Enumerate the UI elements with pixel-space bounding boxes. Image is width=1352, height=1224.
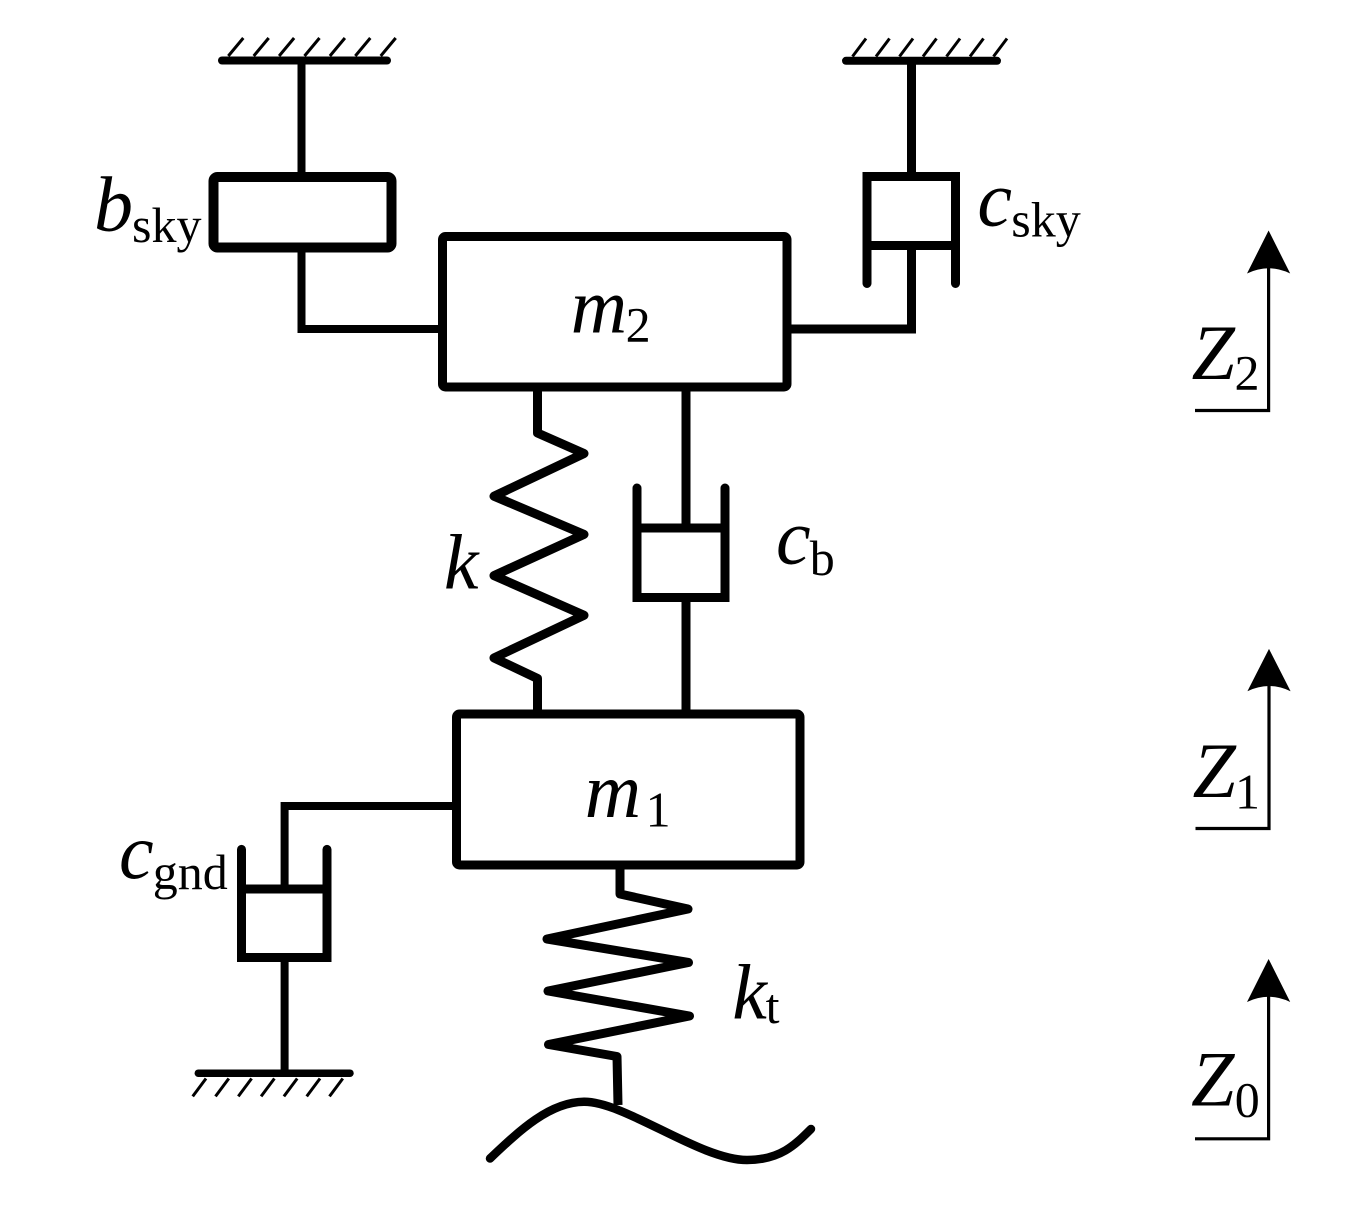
- damper c_gnd rod to ground: [281, 958, 289, 1074]
- spring k between m2 and m1: [494, 391, 584, 710]
- svg-text:2: 2: [626, 296, 651, 352]
- wire from b_sky to mass m2: [302, 247, 444, 329]
- svg-text:c: c: [977, 156, 1012, 243]
- damper c_b rod to m1: [682, 598, 691, 711]
- damper c_b cylinder (cup): [637, 488, 725, 598]
- svg-text:sky: sky: [1011, 192, 1080, 248]
- label b_sky: [94, 161, 201, 253]
- label Z1: [1193, 727, 1261, 819]
- svg-text:1: 1: [1235, 764, 1260, 820]
- svg-text:sky: sky: [132, 197, 201, 253]
- svg-text:k: k: [444, 518, 480, 605]
- axis arrow Z0: [1195, 959, 1290, 1139]
- damper b_sky rod from ceiling: [298, 62, 306, 176]
- road profile wave: [490, 1102, 811, 1160]
- mass m2 box: [443, 237, 788, 388]
- svg-text:c: c: [776, 494, 811, 581]
- svg-text:Z: Z: [1191, 1036, 1236, 1123]
- damper c_sky rod from ceiling: [907, 62, 916, 180]
- svg-text:c: c: [119, 808, 154, 895]
- wire from m1 to damper c_gnd: [285, 806, 452, 889]
- label c_sky: [977, 156, 1080, 248]
- svg-text:m: m: [585, 747, 641, 834]
- label kt: [732, 949, 779, 1036]
- label k: [444, 518, 480, 605]
- axis arrow Z2: [1195, 231, 1290, 411]
- axis arrow Z1: [1196, 649, 1291, 829]
- damper b_sky body box: [214, 177, 392, 248]
- svg-text:m: m: [571, 262, 627, 349]
- label c_gnd: [119, 808, 228, 900]
- svg-text:t: t: [766, 978, 780, 1034]
- label Z0: [1191, 1036, 1260, 1128]
- damper c_sky piston: [863, 241, 960, 250]
- damper c_b rod from m2: [682, 391, 691, 528]
- svg-text:Z: Z: [1192, 309, 1237, 396]
- svg-text:0: 0: [1235, 1071, 1260, 1127]
- damper c_sky cylinder (inverted cup): [867, 177, 956, 284]
- ground anchor (hatched): [193, 1073, 350, 1096]
- label c_b: [776, 494, 835, 586]
- damper c_gnd cylinder (cup): [242, 849, 328, 957]
- svg-text:k: k: [732, 949, 768, 1036]
- svg-text:1: 1: [646, 782, 671, 838]
- svg-text:gnd: gnd: [153, 844, 228, 900]
- damper c_gnd piston: [238, 885, 332, 894]
- mass m1 box: [457, 714, 801, 865]
- label m1: [585, 747, 671, 838]
- ceiling anchor right (hatched wall for c_sky): [846, 39, 1007, 61]
- svg-text:Z: Z: [1193, 727, 1238, 814]
- svg-text:b: b: [810, 530, 835, 586]
- label Z2: [1192, 309, 1260, 401]
- wire from c_sky piston to mass m2: [789, 246, 912, 330]
- svg-text:2: 2: [1235, 345, 1260, 401]
- svg-text:b: b: [94, 161, 133, 248]
- spring kt between m1 and road: [547, 869, 690, 1105]
- label m2: [571, 262, 651, 352]
- ceiling anchor left (hatched wall for b_sky): [222, 38, 396, 61]
- damper c_b piston: [633, 524, 729, 533]
